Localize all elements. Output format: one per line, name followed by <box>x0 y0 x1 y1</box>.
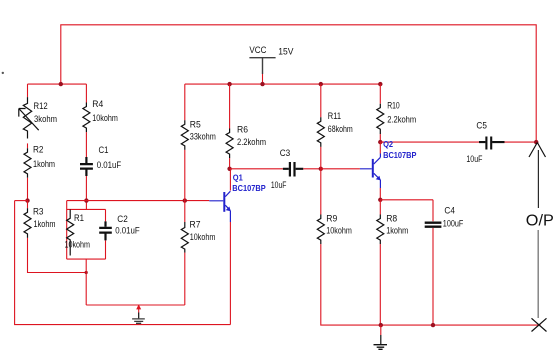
wire R11 top lead <box>320 84 322 117</box>
wire node E to R9 <box>320 169 322 215</box>
svg-text:15V: 15V <box>278 46 293 56</box>
ground G2 stub <box>380 325 382 335</box>
node F junction R10/Q2 collector/C5 <box>378 140 382 144</box>
junction VCC on rail <box>260 82 264 86</box>
wire R4 to C1 <box>85 132 87 157</box>
wire R10 bottom to node F <box>379 134 381 142</box>
wire R7 bottom to ground link <box>184 253 186 305</box>
wire R6 bottom to node D <box>229 158 231 169</box>
svg-text:C1: C1 <box>99 145 109 155</box>
svg-text:C2: C2 <box>117 214 128 224</box>
probe shaft lower gray <box>537 230 539 318</box>
wire node F to C5 <box>380 141 479 143</box>
probe shaft upper <box>537 150 539 208</box>
svg-text:BC107BP: BC107BP <box>232 183 266 193</box>
resistor R9 <box>317 215 324 245</box>
wire box bottom lead down <box>85 259 87 305</box>
wire C4 bottom <box>432 228 434 325</box>
probe arrow bottom X <box>532 318 547 331</box>
resistor R1 <box>67 209 74 255</box>
svg-text:10kohm: 10kohm <box>190 232 216 242</box>
svg-text:R1: R1 <box>74 213 84 223</box>
wire R3 top lead <box>27 201 29 209</box>
svg-text:BC107BP: BC107BP <box>383 150 417 160</box>
wire R8 bottom to bottom rail <box>379 244 381 325</box>
wire left rail R12/R4 tops <box>28 83 87 85</box>
wire VCC stub <box>262 74 264 84</box>
resistor R12 (potentiometer) zigzag <box>23 97 31 138</box>
svg-text:R6: R6 <box>237 125 248 135</box>
wire parallel box around R1 and C2 <box>67 201 106 260</box>
node A junction top-left <box>59 82 63 86</box>
svg-text:R11: R11 <box>328 111 341 121</box>
svg-text:Q1: Q1 <box>233 172 243 182</box>
node D junction R6/C3/Q1 collector <box>227 167 231 171</box>
capacitor C1 <box>80 157 93 176</box>
wire R2 bottom to node B <box>27 178 29 201</box>
svg-text:R3: R3 <box>33 207 44 217</box>
node B junction R2/R3 <box>25 198 29 202</box>
node C junction R5/R7/base <box>183 198 187 202</box>
ground G1 arrow <box>136 304 141 309</box>
wire node D to C3 <box>230 168 283 170</box>
potentiometer arrow of R12 <box>19 109 39 131</box>
transistor Q1 symbol <box>223 192 225 212</box>
wire Q2 collector <box>379 142 381 153</box>
wire R4 top lead <box>85 84 87 102</box>
svg-text:0.01uF: 0.01uF <box>97 160 122 170</box>
capacitor C4 <box>425 223 442 227</box>
wire R12 top lead <box>27 84 29 97</box>
wire R10 top lead <box>379 84 381 104</box>
wire Q2 emitter down <box>379 188 381 200</box>
wire Q2 base red part <box>321 168 360 170</box>
wire link line box to R5/R7 node <box>67 200 210 202</box>
wire VCC rail <box>185 83 380 85</box>
wire R6 top lead <box>229 84 231 128</box>
capacitor C3 <box>283 162 303 177</box>
junction R6 top on rail <box>227 82 231 86</box>
resistor R2 <box>24 148 31 178</box>
wire C3 to node E <box>303 168 321 170</box>
stray dot left edge <box>2 72 4 74</box>
probe arrow top <box>529 143 546 158</box>
wire R9 bottom to bottom rail <box>321 244 541 325</box>
junction R11 top on rail <box>319 82 323 86</box>
wire R11 bottom to node E <box>320 147 322 169</box>
resistor R6 <box>226 129 233 159</box>
wire R12 to R2 <box>27 143 29 148</box>
svg-text:O/P: O/P <box>526 213 554 230</box>
transistor Q2 symbol <box>372 159 374 178</box>
wire node C to R7 <box>184 201 186 222</box>
ground G1 stub <box>138 307 140 313</box>
svg-text:R4: R4 <box>92 99 103 109</box>
svg-text:33kohm: 33kohm <box>190 132 216 142</box>
node H output junction <box>534 140 538 144</box>
svg-text:10uF: 10uF <box>466 154 482 164</box>
resistor R8 <box>377 215 384 245</box>
svg-text:R5: R5 <box>190 119 201 129</box>
svg-text:3kohm: 3kohm <box>34 114 57 124</box>
junction C1 column with link line <box>84 198 88 202</box>
resistor R7 <box>181 222 188 253</box>
wire node B to left drop <box>15 200 28 202</box>
resistor R4 <box>83 103 90 133</box>
wire R5 top lead <box>184 84 186 120</box>
svg-text:C3: C3 <box>280 148 291 158</box>
svg-text:VCC: VCC <box>249 45 266 55</box>
capacitor C2 <box>99 221 112 240</box>
wire C1 bottom to box top <box>85 176 87 209</box>
svg-text:R12: R12 <box>34 101 48 111</box>
power symbol VCC <box>249 58 275 74</box>
ground G1 bars <box>132 319 145 323</box>
svg-text:C4: C4 <box>444 206 455 216</box>
ground G2 bars <box>374 345 388 350</box>
capacitor C5 <box>479 137 505 150</box>
svg-text:10kohm: 10kohm <box>326 226 352 236</box>
svg-text:R9: R9 <box>326 213 337 223</box>
junction C4 on bottom rail <box>431 323 435 327</box>
wire top feedback rail from node A to output node <box>61 25 536 142</box>
svg-text:R8: R8 <box>386 213 397 223</box>
resistor R5 <box>181 120 188 150</box>
node E junction C3/column/Q2 base <box>319 167 323 171</box>
svg-text:R10: R10 <box>387 101 400 111</box>
svg-text:1kohm: 1kohm <box>34 219 56 229</box>
resistor R11 <box>317 117 324 147</box>
svg-text:100uF: 100uF <box>443 218 464 228</box>
resistor R10 <box>377 104 384 134</box>
wire C5 to output node <box>505 141 537 143</box>
svg-text:10kohm: 10kohm <box>65 240 91 250</box>
node G junction Q2 emitter/R8/C4 <box>378 198 382 202</box>
svg-text:0.01uF: 0.01uF <box>115 226 140 236</box>
wire node G to C4 <box>380 200 433 221</box>
svg-text:R2: R2 <box>33 145 44 155</box>
svg-text:R7: R7 <box>190 219 201 229</box>
wire ground link line <box>86 304 185 306</box>
svg-text:1kohm: 1kohm <box>33 159 55 169</box>
junction R8/ground on bottom rail <box>379 323 383 327</box>
wire R3 bottom link to box lead <box>28 238 87 273</box>
wire R5 bottom to node C <box>184 150 186 201</box>
wire R8 top lead <box>379 200 381 215</box>
resistor R3 <box>24 208 31 238</box>
svg-text:1kohm: 1kohm <box>386 226 408 236</box>
svg-text:C5: C5 <box>476 121 487 131</box>
svg-text:2.2kohm: 2.2kohm <box>387 114 416 124</box>
svg-text:Q2: Q2 <box>383 139 393 149</box>
wire Q1 collector <box>229 169 231 191</box>
wire left outer drop to bottom <box>15 201 231 325</box>
svg-text:10uF: 10uF <box>271 180 287 190</box>
svg-text:2.2kohm: 2.2kohm <box>237 137 266 147</box>
junction R3-link/box lead <box>85 271 88 274</box>
svg-text:10kohm: 10kohm <box>92 113 118 123</box>
junction R10 top on rail <box>378 82 382 86</box>
svg-text:68kohm: 68kohm <box>328 124 353 134</box>
wire Q1 emitter down <box>229 222 231 325</box>
